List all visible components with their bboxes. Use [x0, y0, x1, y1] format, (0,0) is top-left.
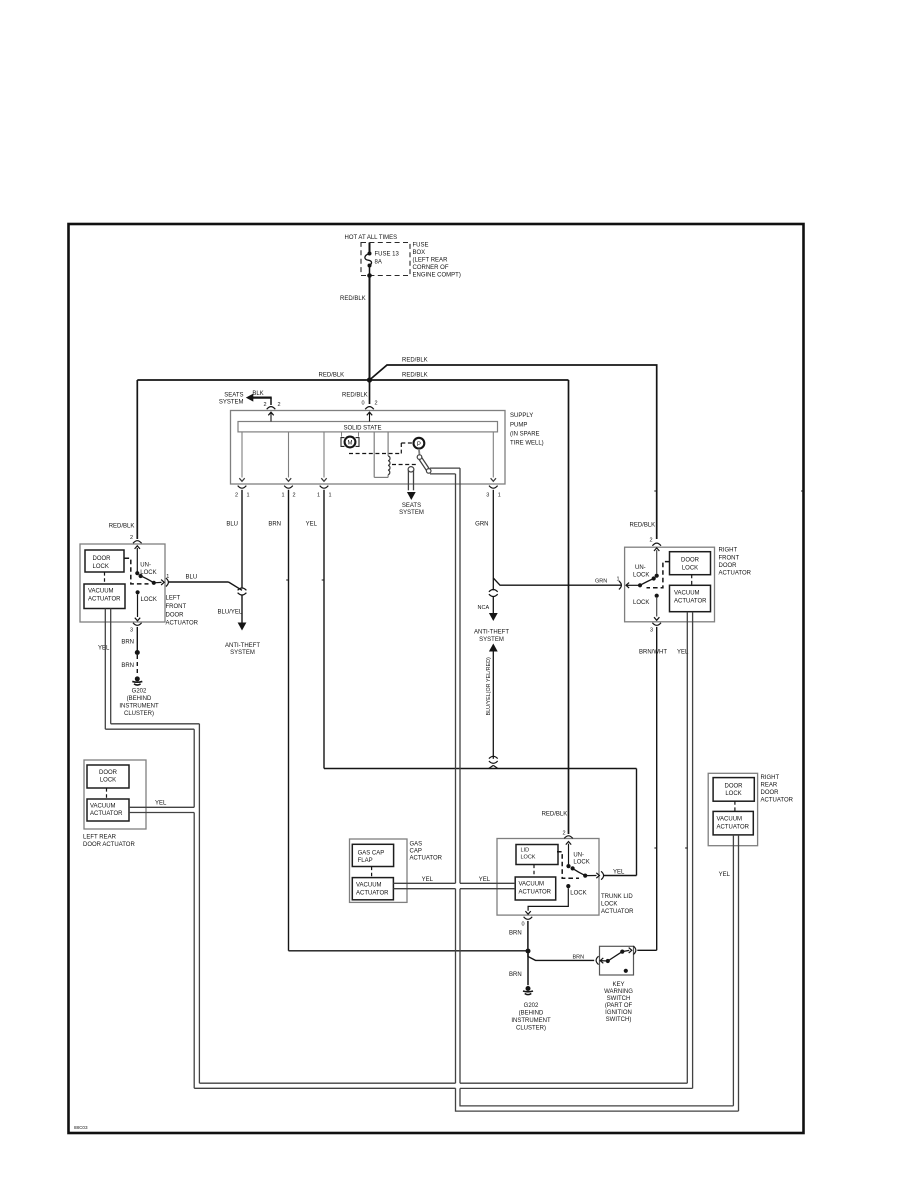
fuse box (dashed) — [361, 243, 410, 276]
gas cap actuator box — [350, 839, 408, 902]
wire BLU from door switch — [169, 581, 229, 583]
connector at right front actuator pin 1 — [619, 581, 622, 589]
svg-text:GAS: GAS — [410, 842, 423, 848]
svg-text:SEATS: SEATS — [224, 393, 243, 399]
svg-text:YEL: YEL — [98, 646, 110, 652]
svg-text:ANTI-THEFT: ANTI-THEFT — [225, 643, 260, 649]
wire BRN/WHT to key warning switch — [656, 627, 658, 950]
svg-text:FUSE 13: FUSE 13 — [375, 252, 400, 258]
dashed link lid lock to switch — [557, 852, 579, 879]
svg-text:LOCK: LOCK — [141, 597, 157, 603]
right rear door actuator box — [708, 773, 757, 845]
vacuum actuator box left rear — [87, 799, 129, 821]
svg-text:88C03: 88C03 — [74, 1125, 88, 1130]
svg-text:LOCK: LOCK — [633, 573, 649, 579]
svg-text:YEL: YEL — [422, 877, 434, 883]
svg-text:LOCK: LOCK — [100, 778, 116, 784]
svg-text:ACTUATOR: ACTUATOR — [166, 621, 199, 627]
svg-text:HOT AT ALL TIMES: HOT AT ALL TIMES — [345, 235, 398, 241]
page frame — [69, 224, 804, 1133]
dashed control links in pump — [349, 453, 401, 455]
svg-text:2: 2 — [649, 538, 652, 544]
svg-text:RED/BLK: RED/BLK — [402, 373, 428, 379]
connector on GRN wire — [489, 590, 498, 592]
ground G202 bottom — [526, 986, 531, 991]
svg-text:DOOR: DOOR — [761, 790, 780, 796]
trunk lid lock actuator box — [497, 839, 599, 916]
wire RED/BLK to trunk lid actuator — [568, 380, 570, 834]
svg-text:RED/BLK: RED/BLK — [319, 372, 345, 378]
pin 3 left front — [133, 623, 142, 626]
svg-text:BRN: BRN — [509, 931, 522, 937]
svg-text:(BEHIND: (BEHIND — [519, 1011, 544, 1017]
svg-text:YEL: YEL — [613, 870, 625, 876]
svg-text:DOOR: DOOR — [166, 613, 185, 619]
svg-text:RED/BLK: RED/BLK — [340, 296, 366, 302]
dashed link left rear — [106, 788, 108, 799]
wire RED/BLK to right front door actuator — [370, 365, 657, 539]
svg-text:LOCK: LOCK — [140, 570, 156, 576]
solid state module — [238, 422, 498, 432]
dashed link door lock to switch right front — [647, 562, 670, 588]
key warning switch contacts — [596, 956, 599, 964]
svg-text:SYSTEM: SYSTEM — [399, 510, 424, 516]
svg-text:TRUNK LID: TRUNK LID — [601, 894, 633, 900]
supply pump box — [231, 411, 506, 485]
svg-text:0: 0 — [521, 922, 524, 928]
svg-text:YEL: YEL — [719, 872, 731, 878]
pressure switch lever — [418, 449, 421, 455]
connector pins 1/2 BRN — [284, 486, 293, 489]
svg-text:(IN SPARE: (IN SPARE — [510, 432, 540, 438]
svg-text:SWITCH): SWITCH) — [606, 1017, 632, 1023]
svg-text:LOCK: LOCK — [725, 791, 741, 797]
svg-text:ACTUATOR: ACTUATOR — [719, 571, 752, 577]
svg-text:8A: 8A — [375, 260, 382, 266]
svg-text:SEATS: SEATS — [402, 503, 421, 509]
pin 0 trunk — [524, 917, 533, 920]
svg-text:1: 1 — [329, 493, 332, 499]
svg-text:INSTRUMENT: INSTRUMENT — [511, 1018, 551, 1024]
lock contact right front — [655, 594, 659, 598]
fuse F13 8A — [369, 243, 371, 253]
wire BLU/YEL to anti-theft — [241, 595, 243, 622]
lid lock box — [516, 845, 558, 865]
svg-text:BLU: BLU — [186, 575, 198, 581]
svg-text:BRN/WHT: BRN/WHT — [639, 650, 667, 656]
svg-text:SWITCH: SWITCH — [607, 996, 631, 1002]
vacuum actuator box right rear — [713, 811, 753, 835]
wire GRN to right front door actuator — [493, 578, 621, 585]
svg-text:ENGINE COMPT): ENGINE COMPT) — [413, 273, 461, 279]
svg-text:LEFT REAR: LEFT REAR — [83, 835, 117, 841]
svg-text:LOCK: LOCK — [682, 566, 698, 572]
wire BLU from pump — [241, 490, 243, 589]
svg-text:SYSTEM: SYSTEM — [479, 637, 504, 643]
connector pins 1/1 YEL — [320, 486, 329, 489]
dashed link door lock to vacuum actuator right front — [691, 575, 693, 586]
svg-text:RED/BLK: RED/BLK — [342, 393, 368, 399]
door lock box right rear — [713, 778, 754, 802]
svg-text:BRN: BRN — [121, 640, 134, 646]
wire RED/BLK from fuse to junction — [369, 276, 371, 381]
svg-text:RED/BLK: RED/BLK — [630, 523, 656, 529]
svg-text:1: 1 — [247, 493, 250, 499]
svg-text:2: 2 — [562, 831, 565, 837]
svg-text:ACTUATOR: ACTUATOR — [410, 856, 443, 862]
svg-text:LOCK: LOCK — [633, 600, 649, 606]
svg-text:TIRE WELL): TIRE WELL) — [510, 441, 544, 447]
gas cap flap box — [352, 844, 393, 866]
svg-text:1: 1 — [166, 574, 169, 580]
svg-text:(BEHIND: (BEHIND — [127, 696, 152, 702]
svg-text:CORNER OF: CORNER OF — [413, 265, 449, 271]
entry arrows into solid state — [270, 413, 272, 422]
left front door actuator box — [80, 544, 165, 622]
svg-text:VACUUM: VACUUM — [90, 804, 116, 810]
svg-text:BLU/YEL: BLU/YEL — [218, 610, 243, 616]
vacuum actuator box gas cap — [352, 878, 393, 900]
pin 3 right front — [652, 623, 661, 626]
wire BLK to seats system — [270, 398, 272, 405]
svg-text:REAR: REAR — [761, 783, 778, 789]
svg-text:SOLID STATE: SOLID STATE — [343, 426, 381, 432]
svg-text:CLUSTER): CLUSTER) — [516, 1026, 546, 1032]
hose manifold bottom right — [460, 1082, 687, 1084]
right front door actuator box — [625, 547, 715, 622]
wire BRN to ground — [527, 954, 529, 986]
vacuum actuator box right front — [670, 585, 711, 611]
connector pins 2/1 BLU — [238, 486, 247, 489]
svg-text:SYSTEM: SYSTEM — [219, 400, 244, 406]
svg-text:ANTI-THEFT: ANTI-THEFT — [474, 630, 509, 636]
svg-text:YEL: YEL — [306, 522, 318, 528]
svg-text:M: M — [348, 441, 353, 447]
wire GRN from pump — [492, 490, 494, 591]
wire BLU/YEL(OR YEL/RED) — [489, 644, 498, 652]
dashed link gas cap — [371, 867, 373, 878]
svg-text:ACTUATOR: ACTUATOR — [674, 599, 707, 605]
svg-text:2: 2 — [278, 402, 281, 408]
ground G202 (behind instrument cluster) — [135, 676, 140, 681]
svg-text:DOOR: DOOR — [99, 770, 118, 776]
svg-text:DOOR: DOOR — [681, 558, 700, 564]
wire RED/BLK into supply pump — [369, 380, 371, 404]
relay coil — [373, 432, 375, 478]
svg-text:VACUUM: VACUUM — [88, 589, 114, 595]
svg-text:LOCK: LOCK — [601, 902, 617, 908]
svg-text:LID: LID — [521, 848, 530, 854]
svg-text:UN-: UN- — [635, 565, 646, 571]
svg-text:FUSE: FUSE — [413, 243, 429, 249]
svg-text:FRONT: FRONT — [166, 604, 187, 610]
svg-text:GRN: GRN — [595, 579, 607, 585]
svg-text:RED/BLK: RED/BLK — [542, 812, 568, 818]
key warning switch box — [600, 946, 634, 975]
lock contact trunk — [566, 884, 570, 888]
svg-text:ACTUATOR: ACTUATOR — [761, 798, 794, 804]
svg-text:2: 2 — [263, 402, 266, 408]
wire YEL from pump to trunk switch — [323, 490, 325, 769]
svg-text:NCA: NCA — [478, 605, 490, 611]
svg-text:ACTUATOR: ACTUATOR — [717, 825, 750, 831]
svg-text:(LEFT REAR: (LEFT REAR — [413, 258, 449, 264]
svg-text:BRN: BRN — [573, 955, 585, 961]
svg-text:LOCK: LOCK — [570, 891, 586, 897]
wire BRN to ground G202 — [136, 627, 138, 651]
svg-text:SYSTEM: SYSTEM — [230, 650, 255, 656]
svg-text:ACTUATOR: ACTUATOR — [519, 890, 552, 896]
svg-text:2: 2 — [293, 493, 296, 499]
door lock box left front — [85, 550, 124, 572]
hose to seats system — [407, 470, 409, 490]
svg-text:DOOR ACTUATOR: DOOR ACTUATOR — [83, 842, 135, 848]
vacuum actuator box left front — [84, 584, 125, 609]
svg-text:RIGHT: RIGHT — [761, 775, 780, 781]
svg-text:UN-: UN- — [573, 853, 584, 859]
dashed link right rear — [734, 801, 736, 811]
dashed link lid lock to vacuum actuator — [533, 865, 535, 878]
pump internal wires to bottom pins — [241, 432, 243, 478]
svg-text:3: 3 — [650, 628, 653, 634]
svg-text:YEL: YEL — [155, 801, 167, 807]
svg-text:RIGHT: RIGHT — [719, 548, 738, 554]
svg-text:PUMP: PUMP — [510, 423, 527, 429]
svg-text:(PART OF: (PART OF — [605, 1003, 633, 1009]
svg-text:0: 0 — [361, 401, 364, 407]
svg-text:BLU/YEL(OR YEL/RED): BLU/YEL(OR YEL/RED) — [486, 657, 492, 716]
svg-text:ACTUATOR: ACTUATOR — [356, 891, 389, 897]
node RED/BLK junction — [367, 377, 372, 382]
pressure switch P — [414, 438, 425, 449]
svg-text:GAS CAP: GAS CAP — [358, 851, 385, 857]
svg-text:YEL: YEL — [479, 877, 491, 883]
scan tick marks on wires — [654, 490, 656, 492]
svg-text:G202: G202 — [524, 1003, 539, 1009]
svg-text:LOCK: LOCK — [521, 855, 536, 861]
svg-text:ACTUATOR: ACTUATOR — [90, 811, 123, 817]
svg-text:RED/BLK: RED/BLK — [109, 524, 135, 530]
svg-text:IGNITION: IGNITION — [605, 1010, 632, 1016]
svg-text:2: 2 — [235, 493, 238, 499]
hose manifold junction — [456, 1088, 739, 1111]
svg-text:3: 3 — [486, 493, 489, 499]
svg-text:BOX: BOX — [413, 250, 426, 256]
svg-text:ACTUATOR: ACTUATOR — [88, 597, 121, 603]
svg-text:3: 3 — [130, 628, 133, 634]
door lock box right front — [670, 552, 711, 575]
svg-text:LEFT: LEFT — [166, 596, 181, 602]
svg-text:CAP: CAP — [410, 849, 422, 855]
svg-text:VACUUM: VACUUM — [717, 817, 743, 823]
left rear door actuator box — [84, 760, 146, 829]
connector pins 3/1 GRN — [489, 486, 498, 489]
motor M — [341, 432, 343, 437]
svg-text:FLAP: FLAP — [358, 858, 373, 864]
svg-text:P: P — [417, 442, 421, 448]
connector on BLU wire — [238, 588, 247, 590]
wire BRN junction to key warning switch — [528, 951, 594, 960]
svg-text:DOOR: DOOR — [93, 556, 112, 562]
svg-text:RED/BLK: RED/BLK — [402, 358, 428, 364]
door lock box left rear — [87, 765, 129, 788]
svg-text:WARNING: WARNING — [604, 989, 633, 995]
svg-text:2: 2 — [130, 535, 133, 541]
svg-text:BLU: BLU — [226, 522, 238, 528]
un-lock switch trunk — [566, 842, 571, 845]
hose manifold bottom left — [194, 1087, 455, 1089]
dashed link door lock to switch — [125, 558, 149, 584]
svg-text:DOOR: DOOR — [719, 563, 738, 569]
dashed link door lock to vacuum actuator — [104, 572, 106, 584]
svg-text:LOCK: LOCK — [573, 860, 589, 866]
svg-text:LOCK: LOCK — [93, 564, 109, 570]
svg-text:VACUUM: VACUUM — [356, 883, 382, 889]
svg-text:INSTRUMENT: INSTRUMENT — [119, 704, 159, 710]
hose main from pump down — [455, 474, 457, 883]
svg-text:VACUUM: VACUUM — [519, 882, 545, 888]
lock contact left front — [136, 590, 140, 594]
svg-text:1: 1 — [281, 493, 284, 499]
svg-text:BLK: BLK — [252, 391, 263, 397]
wire RED/BLK to left front door actuator — [137, 379, 568, 381]
svg-text:VACUUM: VACUUM — [674, 591, 700, 597]
svg-text:BRN: BRN — [509, 972, 522, 978]
un-lock switch left front — [135, 546, 140, 549]
svg-text:UN-: UN- — [140, 563, 151, 569]
wire BRN from trunk to junction — [527, 921, 529, 949]
svg-text:CLUSTER): CLUSTER) — [124, 711, 154, 717]
svg-text:ACTUATOR: ACTUATOR — [601, 909, 634, 915]
svg-text:2: 2 — [375, 401, 378, 407]
un-lock switch right front — [654, 548, 659, 551]
svg-text:BRN: BRN — [268, 522, 281, 528]
svg-text:1: 1 — [317, 493, 320, 499]
wire BRN from pump to ground junction — [288, 490, 290, 951]
svg-text:DOOR: DOOR — [725, 784, 744, 790]
hose from pump lever — [430, 467, 460, 469]
svg-text:SUPPLY: SUPPLY — [510, 413, 533, 419]
wire NCA to anti-theft — [492, 597, 494, 613]
svg-text:FRONT: FRONT — [719, 556, 740, 562]
svg-text:GRN: GRN — [475, 522, 488, 528]
svg-text:G202: G202 — [132, 689, 147, 695]
vacuum actuator box trunk — [515, 877, 556, 900]
svg-text:1: 1 — [498, 493, 501, 499]
svg-text:KEY: KEY — [612, 982, 624, 988]
svg-text:BRN: BRN — [121, 663, 134, 669]
